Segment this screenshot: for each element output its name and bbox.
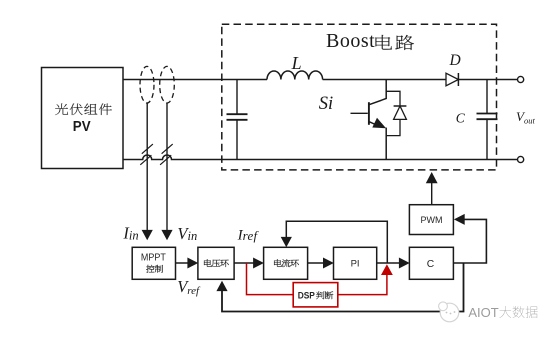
svg-text:C: C xyxy=(427,259,435,270)
svg-text:L: L xyxy=(291,53,302,73)
svg-text:DSP: DSP xyxy=(298,290,316,301)
svg-text:D: D xyxy=(449,52,461,69)
svg-text:Boost: Boost xyxy=(326,30,375,52)
svg-text:PI: PI xyxy=(351,259,360,270)
svg-text:C: C xyxy=(456,110,466,125)
svg-text:MPPT: MPPT xyxy=(141,253,166,264)
svg-text:Iref: Iref xyxy=(237,228,260,244)
svg-text:PV: PV xyxy=(73,118,91,135)
svg-text:Si: Si xyxy=(319,94,333,114)
svg-text:AIOT: AIOT xyxy=(468,305,498,320)
svg-text:PWM: PWM xyxy=(421,215,443,225)
